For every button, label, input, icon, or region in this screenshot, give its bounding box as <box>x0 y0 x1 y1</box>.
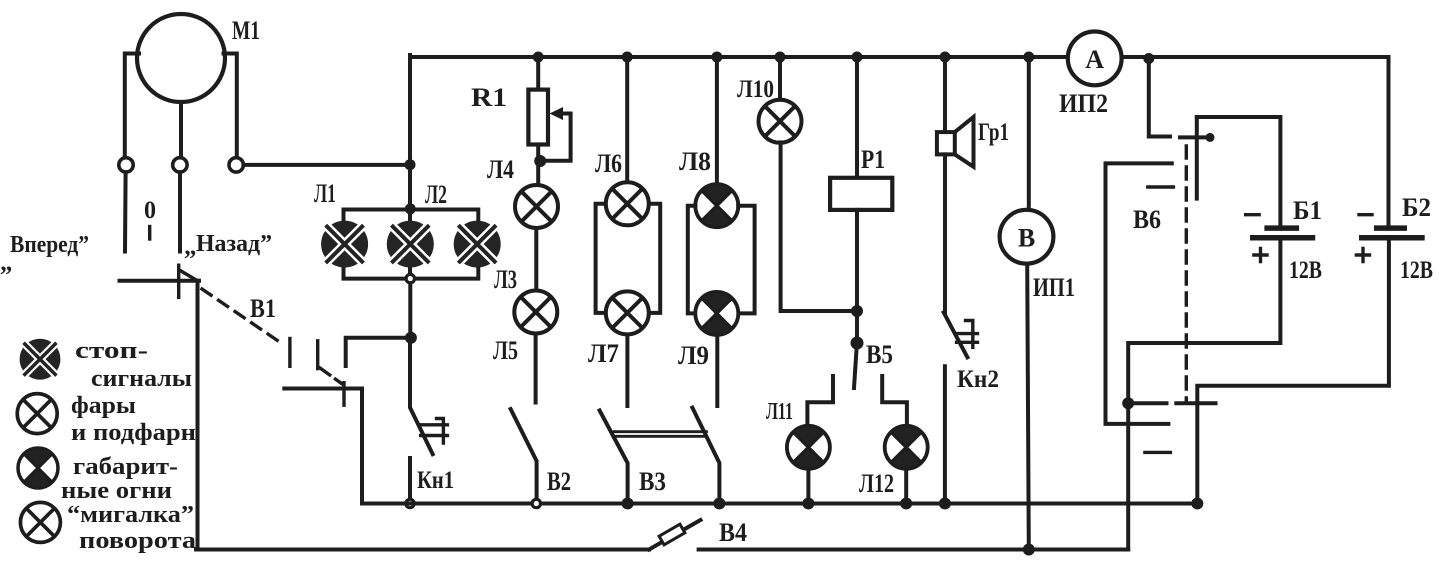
svg-text:12В: 12В <box>1289 257 1322 284</box>
speaker Gr1 <box>937 117 974 167</box>
svg-text:12В: 12В <box>1400 257 1433 284</box>
legend text turn <box>67 502 196 554</box>
legend headlamp symbol <box>17 394 57 434</box>
junction B3 left bottom <box>622 498 634 510</box>
wire bus corner to battery B2 <box>1387 57 1391 225</box>
wire lamps L1-L3 top bracket <box>344 210 479 222</box>
switch B3 right blade <box>692 408 719 500</box>
battery B2 <box>1356 215 1424 262</box>
lamp L4 <box>515 185 558 228</box>
terminal Назад <box>229 158 243 172</box>
label B4 <box>719 518 747 547</box>
lamp L10 <box>759 100 802 143</box>
svg-text:В5: В5 <box>866 340 893 369</box>
svg-text:Л7: Л7 <box>588 339 619 368</box>
switch B1 pole1 blade <box>120 265 200 297</box>
bracket L6-L7 right <box>649 204 660 313</box>
wire top bus left section <box>410 55 1068 59</box>
junction bus P1 <box>852 52 863 63</box>
label B2 <box>547 467 571 496</box>
svg-text:Б1: Б1 <box>1293 196 1322 225</box>
svg-text:поворота: поворота <box>79 528 196 554</box>
switch B5 pivot <box>851 337 864 350</box>
wire motor right terminal <box>224 54 237 158</box>
wire L12 to bus <box>904 469 908 501</box>
terminal Вперед <box>119 158 133 172</box>
wire bus to L8 <box>715 57 719 185</box>
lamp L3 <box>454 221 501 268</box>
label B1 <box>250 294 276 323</box>
lamp L6 <box>606 182 649 225</box>
svg-text:ИП2: ИП2 <box>1059 89 1108 118</box>
bracket L8-L9 right <box>738 206 754 314</box>
switch B2 blade <box>511 409 537 500</box>
svg-text:Л11: Л11 <box>766 399 793 425</box>
label L2 <box>425 180 447 209</box>
switch B6 pole2 contact <box>1106 163 1172 424</box>
svg-text:В2: В2 <box>547 467 571 496</box>
junction bus L6 <box>622 52 633 63</box>
wire B6 to battery B1 <box>1197 117 1281 225</box>
junction R1 wiper <box>534 155 546 167</box>
wire bus to P1 <box>855 57 859 178</box>
svg-text:Л6: Л6 <box>595 149 622 178</box>
svg-text:Р1: Р1 <box>861 145 885 174</box>
resistor R1 <box>528 90 548 145</box>
svg-text:Л1: Л1 <box>314 179 336 208</box>
switch B3 left blade <box>600 411 628 501</box>
wire B5 to L11 <box>807 376 833 427</box>
switch B5 blade <box>854 350 857 389</box>
wire right terminal to bus <box>243 163 412 167</box>
label L11 <box>766 399 793 425</box>
label L4 <box>487 155 514 184</box>
label B2 12V <box>1400 257 1433 284</box>
label L12 <box>859 469 894 498</box>
svg-text:ИП1: ИП1 <box>1033 273 1075 302</box>
label 0 <box>144 197 156 224</box>
svg-text:0: 0 <box>144 197 156 224</box>
svg-text:Назад”: Назад” <box>196 231 272 257</box>
wire B1 left vertical to bottom <box>196 281 200 550</box>
switch B1 pole2 contact <box>284 383 362 504</box>
switch B1 pole2 blade <box>346 338 408 366</box>
label B3 <box>639 467 666 496</box>
svg-text:габарит-: габарит- <box>73 454 178 480</box>
label Назад <box>184 231 272 260</box>
svg-text:Л4: Л4 <box>487 155 514 184</box>
node B2 bottom <box>532 499 540 507</box>
svg-text:Л2: Л2 <box>425 180 447 209</box>
junction bus B6 <box>1143 53 1154 64</box>
label IP2 <box>1059 89 1108 118</box>
wire B2 plus down <box>1197 240 1389 503</box>
label L5 <box>493 336 518 365</box>
lamp L8 <box>695 184 738 227</box>
lamp L2 <box>387 221 434 268</box>
svg-text:Б2: Б2 <box>1402 193 1431 222</box>
wire bus to L6 <box>625 57 629 182</box>
lamp L1 <box>321 221 368 268</box>
svg-text:Л12: Л12 <box>859 469 894 498</box>
svg-text:и подфарн: и подфарн <box>71 420 196 446</box>
battery B1 <box>1246 215 1316 262</box>
junction bus L8 <box>711 52 722 63</box>
junction voltmeter bottom <box>1023 544 1035 556</box>
lamp L5 <box>514 291 557 334</box>
lamp L11 <box>787 426 830 469</box>
contact mark 0 position <box>148 227 151 240</box>
wire P1 to B5 <box>855 210 859 343</box>
wire voltmeter to bottom line <box>1027 264 1029 550</box>
svg-text:R1: R1 <box>471 83 507 112</box>
wire R1 to L4 <box>536 145 540 186</box>
wire L7 to B3 <box>625 335 629 406</box>
label IP1 <box>1033 273 1075 302</box>
svg-text:Л3: Л3 <box>494 265 517 294</box>
svg-text:В4: В4 <box>719 518 747 547</box>
legend marker symbol <box>18 448 58 488</box>
svg-text:Кн1: Кн1 <box>417 467 454 494</box>
wire L5 to B2 <box>534 334 538 403</box>
junction L11 bottom <box>802 498 814 510</box>
wire top bus right section <box>1122 55 1389 59</box>
wire B1 plus down <box>1128 240 1280 549</box>
wire bus to Gr1 <box>943 57 947 132</box>
svg-text:сигналы: сигналы <box>91 366 192 392</box>
junction bus L10 <box>775 52 786 63</box>
lamp L9 <box>695 292 738 335</box>
wire motor left terminal <box>125 54 139 158</box>
label L6 <box>595 149 622 178</box>
wire lower bus <box>362 502 1200 506</box>
node Kn1 bottom <box>406 499 414 507</box>
junction motor-bus <box>405 159 416 170</box>
svg-text:В6: В6 <box>1133 205 1161 234</box>
label B2 <box>1402 193 1431 222</box>
ammeter IP2 <box>1068 32 1122 86</box>
svg-text:фары: фары <box>71 393 136 419</box>
lamp L12 <box>885 426 928 469</box>
junction B3 right bottom <box>713 498 725 510</box>
label Gr1 <box>978 119 1009 146</box>
wire bus to R1 <box>536 57 540 90</box>
svg-text:М1: М1 <box>232 16 260 45</box>
label B1 <box>1293 196 1322 225</box>
wire node column to Kn1 junction <box>408 283 412 338</box>
svg-text:Л10: Л10 <box>737 76 774 103</box>
svg-text:Л5: Л5 <box>493 336 518 365</box>
linkage B1 dashed <box>202 289 343 385</box>
wire Gr1 to Kn2 <box>943 154 947 312</box>
voltmeter IP1 <box>1000 210 1054 264</box>
wire bus to voltmeter <box>1027 57 1031 210</box>
button Kn2 <box>944 312 978 500</box>
label L1 <box>314 179 336 208</box>
junction bus voltmeter <box>1023 52 1034 63</box>
label Kn1 <box>417 467 454 494</box>
label Kn2 <box>957 366 999 393</box>
label R1 <box>471 83 507 112</box>
wire below middle terminal <box>178 172 182 251</box>
junction Kn1 top <box>405 332 417 344</box>
label L8 <box>679 147 711 176</box>
wire motor middle terminal <box>179 102 183 158</box>
svg-text:Л9: Л9 <box>678 341 709 370</box>
linkage B6 dashed <box>1185 146 1188 400</box>
switch B6 pole2 blade <box>1148 185 1174 188</box>
junction bus Gr1 <box>940 52 951 63</box>
label L3 <box>494 265 517 294</box>
switch B6 pole3 <box>1122 397 1215 452</box>
svg-text:Гр1: Гр1 <box>978 119 1009 146</box>
wire L4 to L5 <box>534 228 538 291</box>
wire lamps L1-L3 bottom bracket <box>344 267 479 279</box>
bracket L8-L9 left <box>688 206 696 314</box>
svg-text:А: А <box>1085 45 1104 74</box>
svg-text:В1: В1 <box>250 294 276 323</box>
label P1 <box>861 145 885 174</box>
relay P1 <box>830 178 892 210</box>
wire bus to L10 <box>778 57 782 100</box>
junction Kn2 bottom <box>939 498 951 510</box>
switch B4 blade <box>649 520 701 550</box>
switch B6 pole1 blade <box>1180 117 1215 199</box>
linkage B3 double bar <box>613 432 708 437</box>
wire main left vertical node column <box>408 55 412 279</box>
junction L10-P1 <box>851 305 863 317</box>
node lamp bus bottom <box>406 274 414 282</box>
wiper R1 arrow <box>546 107 571 161</box>
switch B6 pole1 contact <box>1149 59 1170 137</box>
wire bottom line right segment <box>699 548 1129 552</box>
legend stop symbol <box>20 339 61 380</box>
svg-text:стоп-: стоп- <box>75 338 148 364</box>
label B6 <box>1133 205 1161 234</box>
junction bus R1 <box>533 52 544 63</box>
label M1 <box>232 16 260 45</box>
svg-text:“мигалка”: “мигалка” <box>67 502 194 528</box>
wire below left terminal <box>123 172 128 251</box>
legend turn symbol <box>20 502 60 542</box>
svg-text:„: „ <box>184 233 197 260</box>
junction B2 lower bus <box>1191 498 1203 510</box>
junction L12 bottom <box>900 498 912 510</box>
junction lamp top bus <box>405 203 416 214</box>
legend text stop <box>75 338 192 392</box>
label L9 <box>678 341 709 370</box>
wire B5 to L12 <box>882 376 907 427</box>
wire L10 to B5 junction <box>781 142 855 311</box>
legend text headlamps <box>71 393 196 446</box>
wire L9 to B3 <box>715 335 719 406</box>
motor M1 <box>137 14 225 102</box>
legend text marker <box>61 454 178 504</box>
svg-text:Кн2: Кн2 <box>957 366 999 393</box>
label B1 12V <box>1289 257 1322 284</box>
svg-text:Вперед”: Вперед” <box>10 232 89 258</box>
terminal 0 <box>173 158 187 172</box>
svg-text:Л8: Л8 <box>679 147 711 176</box>
button Kn1 <box>410 343 447 500</box>
svg-text:В: В <box>1018 224 1035 253</box>
label Вперед <box>0 232 89 276</box>
label L10 <box>737 76 774 103</box>
svg-text:В3: В3 <box>639 467 666 496</box>
svg-text:ные огни: ные огни <box>61 478 172 504</box>
label B5 <box>866 340 893 369</box>
bracket L6-L7 left <box>596 204 606 313</box>
label L7 <box>588 339 619 368</box>
wire bottom line left segment <box>196 548 649 552</box>
wire L11 to bus <box>806 469 810 501</box>
lamp L7 <box>606 291 649 334</box>
